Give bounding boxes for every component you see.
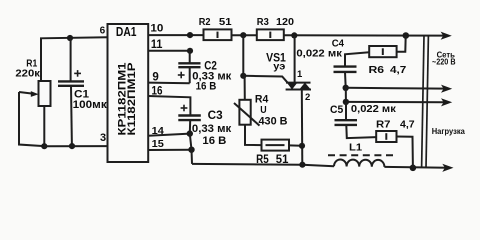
wire pin 10 rail [148,34,203,36]
svg-text:0,022 мк: 0,022 мк [296,48,342,60]
wire pin 14 [148,134,190,136]
svg-text:0,33 мк: 0,33 мк [192,123,232,135]
wiper wire of R1 [19,92,44,146]
svg-text:C5: C5 [330,104,343,116]
node pin10 [187,32,193,38]
node C1 top junction [67,35,73,41]
resistor R6 [369,46,396,57]
svg-text:R3: R3 [257,17,269,28]
wire pin 15 [148,149,191,151]
node R1 bottom [41,143,47,149]
wire R4 bottom to R5 [245,125,262,145]
svg-text:~220 В: ~220 В [432,57,456,66]
svg-text:R4: R4 [255,94,269,106]
svg-text:9: 9 [152,72,158,84]
node triac top [291,32,297,38]
wire C1 bottom [70,86,73,146]
connector bar right [426,36,428,168]
wire triac MT2 [294,35,296,82]
node C1 bottom [69,143,75,149]
svg-text:16 В: 16 В [202,135,226,147]
wire R7 right down [397,137,413,168]
wire bottom rail right [384,166,447,169]
arrow mains2 [441,85,452,93]
wire load1 rail [346,101,446,103]
svg-text:430 В: 430 В [259,115,288,127]
resistor R5 [262,140,290,151]
node load1 junction [343,99,349,105]
node gate junction [240,73,246,79]
svg-text:14: 14 [152,125,164,137]
svg-text:1: 1 [297,69,303,80]
inductor L1 [334,159,384,166]
wire R2-R3 [232,34,257,36]
wire down from pin15 [190,134,192,164]
svg-text:4,7: 4,7 [390,65,407,76]
svg-text:3: 3 [100,132,106,144]
wire between rails [345,88,347,102]
svg-text:4,7: 4,7 [400,119,415,130]
svg-text:К1182ПМ1Р: К1182ПМ1Р [126,63,138,136]
svg-text:Нагрузка: Нагрузка [432,126,465,136]
connector bar left [422,36,424,168]
IC DA1 box [108,24,149,162]
node R7 bottom [410,165,417,172]
triac VS1 [286,83,311,90]
wire pin 9 [148,82,190,85]
svg-text:11: 11 [151,39,163,51]
wire C1 top [70,38,72,81]
resistor R3 [257,29,284,40]
svg-text:DA1: DA1 [116,24,137,39]
resistor R2 [204,29,232,40]
capacitor C5 [335,120,358,125]
svg-text:уэ: уэ [273,61,286,72]
node mains2 junction [343,85,349,91]
capacitor C4 [334,67,357,72]
arrow mains top [441,32,452,40]
wire C5 top [345,102,347,120]
wire gate [243,76,287,83]
svg-text:C3: C3 [208,110,223,122]
svg-text:100мк: 100мк [73,99,108,111]
resistor R4 varistor [239,100,250,125]
node R6 top [403,32,410,39]
svg-text:R6: R6 [369,65,385,76]
capacitor C1 [58,81,84,85]
svg-text:R5: R5 [256,154,269,166]
wire pin 11 [148,50,190,52]
svg-text:R7: R7 [376,119,391,130]
svg-text:R2: R2 [199,17,211,28]
resistor R1 potentiometer [39,81,51,106]
resistor R7 [376,131,396,142]
svg-text:16 В: 16 В [196,81,217,93]
svg-text:2: 2 [305,92,310,103]
capacitor C2 [189,51,191,63]
wire R5 right [289,144,302,146]
wire top-left corner to pin 6 [41,37,108,81]
svg-text:120: 120 [276,17,294,28]
capacitor C3 [178,116,201,121]
wire R6 right up [397,36,406,52]
wire bottom rail left [192,164,334,166]
wire triac MT1 [301,90,304,165]
arrow load1 [441,98,452,106]
svg-text:51: 51 [276,154,289,166]
svg-text:6: 6 [100,26,106,37]
svg-text:16: 16 [152,86,163,98]
node R5/triac [299,143,305,149]
svg-text:L1: L1 [349,142,362,154]
node pin11 [187,48,193,54]
wire C5 bottom to R7 [346,125,376,138]
svg-text:220к: 220к [15,68,41,79]
wire C4 top to R6 [345,52,369,66]
svg-text:0,022 мк: 0,022 мк [351,103,397,115]
svg-text:51: 51 [219,17,232,28]
wire R3 to mains rail [284,34,446,36]
wire R4 top [243,35,245,100]
node pin15 [188,147,194,153]
wire mains2 rail [346,87,446,90]
wire pin 3 [44,145,108,147]
node pin14 [187,130,193,136]
node R2/R3 junction [240,32,246,38]
arrow load bottom [442,164,453,172]
node triac bottom [299,162,305,168]
svg-text:10: 10 [150,22,163,34]
wire pin 16 [148,96,190,115]
svg-text:15: 15 [152,138,164,150]
